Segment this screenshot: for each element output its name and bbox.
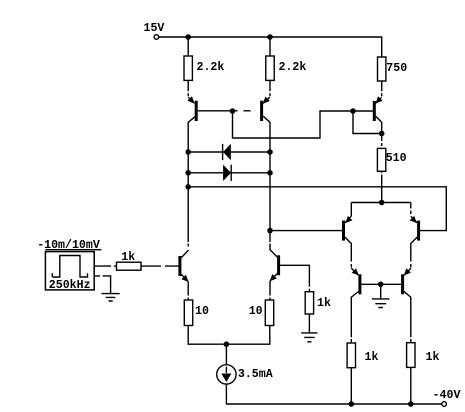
svg-text:1k: 1k xyxy=(365,351,379,364)
svg-text:3.5mA: 3.5mA xyxy=(238,368,273,381)
svg-text:1k: 1k xyxy=(317,297,331,310)
svg-text:15V: 15V xyxy=(144,22,165,35)
svg-text:10: 10 xyxy=(195,305,209,318)
svg-text:750: 750 xyxy=(386,62,407,75)
svg-text:10: 10 xyxy=(249,305,263,318)
svg-text:250kHz: 250kHz xyxy=(49,279,91,292)
svg-text:1k: 1k xyxy=(121,251,135,264)
svg-text:2.2k: 2.2k xyxy=(279,61,307,74)
svg-text:2.2k: 2.2k xyxy=(197,61,225,74)
svg-text:510: 510 xyxy=(386,152,407,165)
svg-text:1k: 1k xyxy=(426,351,440,364)
svg-text:-40V: -40V xyxy=(433,389,461,402)
